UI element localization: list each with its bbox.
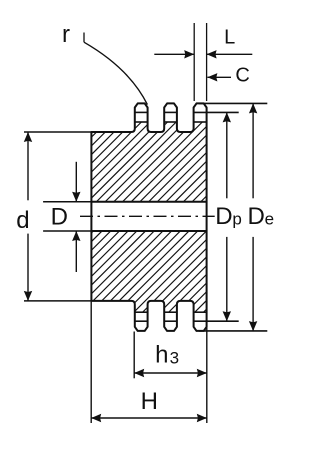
dimension arrow line D lower xyxy=(75,231,77,272)
arrowhead h3 left xyxy=(134,369,144,377)
root line top tooth row 2 xyxy=(164,121,177,123)
centerline (dash-dot axis) xyxy=(80,215,215,217)
arrowhead D upper xyxy=(72,192,80,202)
dimension arrow line C xyxy=(207,76,231,78)
arrowhead d top xyxy=(24,132,32,142)
leader curve from r to tooth tip radius xyxy=(84,42,147,104)
dimension line Dp lower xyxy=(226,237,228,321)
root line top tooth row 1 xyxy=(135,121,148,123)
dimension line L right segment xyxy=(207,53,253,55)
svg-text:L: L xyxy=(224,27,235,49)
dimension line d (vertical, gap at label) xyxy=(27,132,29,200)
extension line bore top for D xyxy=(43,201,91,203)
svg-text:3: 3 xyxy=(170,349,179,368)
root line bottom tooth row 3 xyxy=(194,311,207,313)
root line bottom tooth row 2 xyxy=(164,311,177,313)
arrowhead L right xyxy=(207,50,217,58)
dimension line De lower xyxy=(252,237,254,331)
svg-text:e: e xyxy=(265,210,274,229)
svg-text:D: D xyxy=(215,203,232,230)
extension line H left (body left edge extended) xyxy=(90,301,92,423)
dimension arrow line D upper xyxy=(75,162,77,202)
pitch line top tooth row 2 xyxy=(164,111,177,113)
pitch line top tooth row 1 xyxy=(135,111,148,113)
svg-text:p: p xyxy=(232,210,241,229)
pitch line top tooth row 3 extended right (Dp extension) xyxy=(194,111,239,113)
svg-text:r: r xyxy=(62,21,70,48)
bore bottom edge xyxy=(91,230,206,232)
outside-diameter extension line bottom (De) xyxy=(199,330,267,332)
pitch line bottom tooth row 2 xyxy=(164,320,177,322)
arrowhead H right xyxy=(197,414,207,422)
extension line top for d xyxy=(24,131,91,133)
svg-text:H: H xyxy=(141,388,158,415)
leader tick for r xyxy=(83,33,85,43)
arrowhead De top xyxy=(249,103,257,113)
svg-text:d: d xyxy=(16,207,29,234)
arrowhead C xyxy=(207,73,217,81)
pitch line bottom tooth row 1 xyxy=(135,320,148,322)
extension line L left (tooth3 left edge) xyxy=(193,23,195,101)
arrowhead Dp top xyxy=(223,112,231,122)
arrowhead De bottom xyxy=(249,321,257,331)
pitch line bottom tooth row 3 extended right xyxy=(194,320,239,322)
sprocket body outline with three teeth top and bottom xyxy=(91,103,206,331)
arrowhead L left xyxy=(184,50,194,58)
extension line h3 left (tooth1 left edge extended) xyxy=(133,332,135,379)
arrowhead H left xyxy=(91,414,101,422)
dimension line h3 xyxy=(134,372,207,374)
svg-text:D: D xyxy=(248,203,265,230)
dimension line H xyxy=(91,417,207,419)
svg-text:h: h xyxy=(155,341,168,368)
extension line L right (tooth3 right edge) xyxy=(206,23,208,101)
arrowhead Dp bottom xyxy=(223,311,231,321)
root line top tooth row 3 xyxy=(194,121,207,123)
bore top edge xyxy=(91,201,206,203)
arrowhead d bottom xyxy=(24,291,32,301)
arrowhead D lower xyxy=(72,231,80,241)
extension line H right (body right edge extended) xyxy=(206,301,208,423)
dimension line L left segment xyxy=(154,53,194,55)
extension line bottom for d xyxy=(24,300,91,302)
dimension line Dp upper xyxy=(226,112,228,198)
dimension line De upper xyxy=(252,103,254,198)
outside-diameter extension line top (De) xyxy=(199,102,267,104)
root line bottom tooth row 1 xyxy=(135,311,148,313)
svg-text:D: D xyxy=(51,203,68,230)
extension line bore bottom for D xyxy=(43,230,91,232)
svg-text:C: C xyxy=(235,65,249,87)
arrowhead h3 right xyxy=(197,369,207,377)
